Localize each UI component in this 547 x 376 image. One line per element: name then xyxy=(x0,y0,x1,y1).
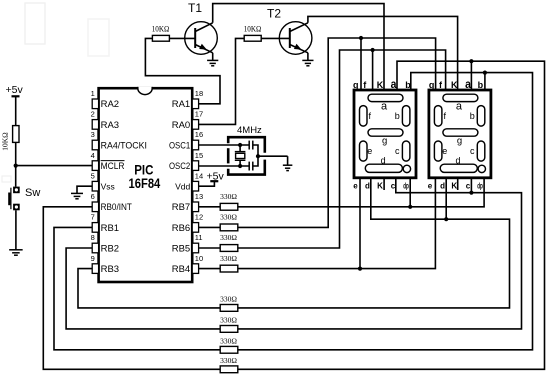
svg-text:10KΩ: 10KΩ xyxy=(152,25,170,34)
svg-text:b: b xyxy=(405,80,411,90)
display2 b stub xyxy=(484,73,486,90)
svg-text:7: 7 xyxy=(91,213,95,222)
DS1 bottom K stub (n.c.) xyxy=(383,178,385,190)
net f line to displays xyxy=(238,50,446,248)
svg-text:dp: dp xyxy=(403,181,409,190)
svg-text:+5v: +5v xyxy=(6,84,24,96)
svg-text:c: c xyxy=(470,146,475,156)
svg-text:K: K xyxy=(451,181,457,190)
crystal X1 xyxy=(235,151,246,153)
wire switch to ground xyxy=(15,210,17,250)
svg-text:10: 10 xyxy=(195,254,203,263)
pin 1 box xyxy=(92,99,98,109)
junction node MCLR xyxy=(14,164,18,168)
wire Vss to ground xyxy=(77,186,92,193)
junction d-display2 xyxy=(444,217,448,221)
junction b-display2 xyxy=(483,71,487,75)
net e line to displays xyxy=(238,178,436,269)
net dp (RB7): wire pin13 xyxy=(199,206,221,208)
wire RA1 to T1 base resistor xyxy=(145,38,220,103)
faint artifact rectangle 3 xyxy=(2,176,11,182)
+5v supply bar (left) xyxy=(12,95,20,97)
svg-text:11: 11 xyxy=(195,233,203,242)
wire RA0 to T2 base resistor xyxy=(199,38,245,124)
faint artifact rectangle 1 xyxy=(25,3,45,44)
wire junction to switch xyxy=(15,166,17,187)
net g line to displays xyxy=(238,38,436,227)
svg-text:330Ω: 330Ω xyxy=(220,213,237,222)
ground (T2) xyxy=(302,59,313,61)
DS1 segment a xyxy=(368,94,403,101)
pin 12 box xyxy=(192,223,198,233)
svg-text:330Ω: 330Ω xyxy=(220,316,237,325)
DS1 segment dp xyxy=(403,165,410,172)
pin 18 box xyxy=(192,99,198,109)
wire caps common to ground xyxy=(257,151,259,162)
transistor T1 xyxy=(185,22,218,55)
svg-text:16: 16 xyxy=(195,130,203,139)
DS1 segment g xyxy=(368,129,403,136)
pin 4 box xyxy=(92,161,98,171)
svg-text:g: g xyxy=(429,80,435,90)
net c (RB2) routing xyxy=(66,178,521,329)
svg-text:e: e xyxy=(353,181,358,190)
svg-text:d: d xyxy=(455,156,460,166)
display2 c stub xyxy=(470,178,472,193)
svg-text:T1: T1 xyxy=(188,1,202,15)
display1 f stub xyxy=(372,50,374,90)
svg-text:a: a xyxy=(465,77,471,91)
svg-text:a: a xyxy=(456,101,463,113)
svg-text:330Ω: 330Ω xyxy=(220,254,237,263)
resistor 330-ohm (RB6/g) xyxy=(220,224,238,231)
DS1 segment c xyxy=(402,141,410,161)
svg-text:e: e xyxy=(428,181,433,190)
svg-text:RA3: RA3 xyxy=(101,120,119,131)
display1 e stub xyxy=(359,178,361,269)
pin 16 box xyxy=(192,140,198,150)
svg-text:4: 4 xyxy=(91,151,95,160)
wire resistor to T2 base xyxy=(261,37,290,39)
pin 2 box xyxy=(92,120,98,130)
ground (crystal) xyxy=(287,156,289,165)
net e (RB4): wire pin10 xyxy=(199,268,221,270)
resistor 10K-ohm (T2 base) xyxy=(244,35,261,41)
svg-text:a: a xyxy=(381,101,388,113)
wire OSC1 to crystal xyxy=(199,144,250,146)
wire junction to MCLR pin xyxy=(16,165,93,167)
svg-text:4MHz: 4MHz xyxy=(237,125,262,136)
resistor 330-ohm (RB3/d) xyxy=(220,305,238,312)
crystal module box xyxy=(228,137,265,153)
junction crystal-OSC2 xyxy=(238,164,242,168)
svg-text:330Ω: 330Ω xyxy=(220,192,237,201)
svg-text:c: c xyxy=(391,181,396,190)
junction c-display2 xyxy=(469,191,473,195)
net K2: T2 collector to display2 K xyxy=(308,16,458,90)
svg-text:c: c xyxy=(466,181,471,190)
capacitor C2 (OSC2) xyxy=(248,162,250,171)
svg-text:RB3: RB3 xyxy=(101,264,119,275)
svg-text:8: 8 xyxy=(91,233,95,242)
ground (Vss) xyxy=(71,192,83,194)
svg-text:K: K xyxy=(377,80,384,90)
DS2 segment d xyxy=(440,164,477,172)
svg-text:RA1: RA1 xyxy=(172,99,190,110)
resistor 330-ohm (RB7/dp) xyxy=(220,203,238,210)
capacitor C1 (OSC1) xyxy=(248,141,250,150)
svg-text:b: b xyxy=(470,111,475,121)
wire Vdd to +5v xyxy=(199,181,215,186)
svg-text:dp: dp xyxy=(477,181,483,190)
svg-text:e: e xyxy=(442,146,447,156)
transistor T2 xyxy=(279,22,312,55)
pin 6 box xyxy=(92,202,98,212)
svg-text:RB4: RB4 xyxy=(172,264,190,275)
DS2 segment b xyxy=(477,106,485,127)
svg-text:330Ω: 330Ω xyxy=(220,295,237,304)
svg-text:RA2: RA2 xyxy=(101,99,119,110)
pin 7 box xyxy=(92,223,98,233)
svg-text:10KΩ: 10KΩ xyxy=(1,132,10,151)
svg-text:a: a xyxy=(391,77,397,91)
svg-text:RB2: RB2 xyxy=(101,243,119,254)
display2 d stub xyxy=(445,178,447,219)
DS2 segment dp xyxy=(478,165,485,172)
resistor 330-ohm (RB5/f) xyxy=(220,245,238,252)
resistor 330-ohm (RB2/c) xyxy=(220,326,238,333)
pin 10 box xyxy=(192,264,198,274)
junction f-display1 xyxy=(371,48,375,52)
pin 3 box xyxy=(92,140,98,150)
PIC16F84 chip body U1 xyxy=(99,88,193,282)
svg-text:RA0: RA0 xyxy=(172,120,190,131)
wire +5v to resistor xyxy=(15,96,17,125)
display1 dp stub xyxy=(409,178,411,207)
wire OSC2 to crystal xyxy=(199,165,250,167)
svg-text:6: 6 xyxy=(91,192,95,201)
svg-text:OSC1: OSC1 xyxy=(169,140,190,151)
junction caps common xyxy=(256,154,260,158)
pin 13 box xyxy=(192,202,198,212)
svg-text:Sw: Sw xyxy=(25,187,40,199)
svg-text:K: K xyxy=(377,181,383,190)
resistor 10K-ohm (T1 base) xyxy=(152,35,169,41)
svg-text:13: 13 xyxy=(195,192,203,201)
svg-text:15: 15 xyxy=(195,151,203,160)
net dp line to displays xyxy=(238,178,484,207)
svg-text:1: 1 xyxy=(91,89,95,98)
7-segment display DS2 body xyxy=(429,90,491,178)
DS2 segment f xyxy=(434,106,442,127)
svg-text:RB0/INT: RB0/INT xyxy=(101,202,132,213)
svg-text:d: d xyxy=(440,181,445,190)
pin 8 box xyxy=(92,243,98,253)
+5v supply bar (Vdd) xyxy=(210,180,218,182)
DS2 segment e xyxy=(434,141,442,161)
switch Sw terminal top xyxy=(13,187,20,194)
net g (RB6): wire pin12 xyxy=(199,226,221,228)
MCLR overline xyxy=(101,160,125,162)
net a (RB0) routing xyxy=(43,61,544,369)
switch Sw actuator bar xyxy=(10,188,12,210)
DS1 segment b xyxy=(402,106,410,127)
pin 14 box xyxy=(192,181,198,191)
svg-text:T2: T2 xyxy=(267,7,281,21)
svg-text:Vss: Vss xyxy=(101,182,115,192)
svg-text:b: b xyxy=(395,111,400,121)
svg-text:d: d xyxy=(365,181,370,190)
pin 15 box xyxy=(192,161,198,171)
display2 a stub xyxy=(470,61,472,90)
svg-text:K: K xyxy=(451,80,458,90)
svg-text:RB5: RB5 xyxy=(172,243,190,254)
chip notch xyxy=(138,87,152,95)
svg-text:RB7: RB7 xyxy=(172,202,190,213)
wire T2 emitter to ground xyxy=(307,53,309,61)
svg-text:3: 3 xyxy=(91,130,95,139)
svg-text:g: g xyxy=(457,135,462,146)
svg-text:g: g xyxy=(382,135,387,146)
svg-text:330Ω: 330Ω xyxy=(220,337,237,346)
svg-text:9: 9 xyxy=(91,254,95,263)
resistor 330-ohm (RB0/a) xyxy=(220,366,238,373)
DS2 segment a xyxy=(443,94,478,101)
svg-text:Vdd: Vdd xyxy=(175,182,190,192)
DS1 segment d xyxy=(365,164,402,172)
junction crystal-OSC1 xyxy=(238,143,242,147)
junction dp-display1 xyxy=(408,205,412,209)
svg-text:14: 14 xyxy=(195,171,203,180)
svg-text:RA4/TOCKI: RA4/TOCKI xyxy=(101,140,147,151)
junction g-display1 xyxy=(359,36,363,40)
svg-text:2: 2 xyxy=(91,110,95,119)
wire resistor to junction xyxy=(15,142,17,165)
pin 9 box xyxy=(92,264,98,274)
wire T1 emitter to ground xyxy=(212,53,214,61)
svg-text:10KΩ: 10KΩ xyxy=(244,25,262,34)
ground (switch) xyxy=(9,249,23,251)
ground (T1) xyxy=(207,59,218,61)
svg-text:17: 17 xyxy=(195,110,203,119)
svg-text:d: d xyxy=(381,156,386,166)
pin 5 box xyxy=(92,181,98,191)
net f (RB5): wire pin11 xyxy=(199,247,221,249)
svg-text:RB1: RB1 xyxy=(101,223,119,234)
DS1 segment e xyxy=(360,141,368,161)
switch Sw terminal bottom xyxy=(13,204,20,211)
net K1: T1 collector to display1 K xyxy=(213,4,384,90)
svg-text:5: 5 xyxy=(91,171,95,180)
svg-text:e: e xyxy=(367,146,372,156)
display1 g stub xyxy=(360,38,362,90)
wire resistor to T1 base xyxy=(169,37,195,39)
DS2 segment c xyxy=(477,141,485,161)
svg-text:16F84: 16F84 xyxy=(129,176,161,191)
svg-text:c: c xyxy=(395,146,400,156)
svg-text:+5v: +5v xyxy=(207,171,225,183)
resistor 10K-ohm vertical (R1) xyxy=(13,126,19,143)
svg-text:g: g xyxy=(353,80,359,90)
DS2 bottom K stub (n.c.) xyxy=(457,178,459,190)
net d (RB3) routing xyxy=(78,178,510,308)
svg-text:b: b xyxy=(478,80,484,90)
DS1 segment f xyxy=(360,106,368,127)
DS2 segment g xyxy=(443,129,478,136)
resistor 330-ohm (RB4/e) xyxy=(220,265,238,272)
junction e-display1 xyxy=(358,267,362,271)
svg-text:330Ω: 330Ω xyxy=(220,356,237,365)
svg-text:18: 18 xyxy=(195,89,203,98)
svg-text:12: 12 xyxy=(195,213,203,222)
7-segment display DS1 body xyxy=(354,90,416,178)
resistor 330-ohm (RB1/b) xyxy=(220,346,238,353)
svg-text:330Ω: 330Ω xyxy=(220,233,237,242)
pin 11 box xyxy=(192,243,198,253)
svg-text:OSC2: OSC2 xyxy=(169,161,190,172)
faint artifact rectangle 2 xyxy=(88,19,109,56)
net b (RB1) routing xyxy=(54,73,533,350)
svg-text:MCLR: MCLR xyxy=(101,161,125,172)
svg-text:RB6: RB6 xyxy=(172,223,190,234)
junction a-display2 xyxy=(469,59,473,63)
pin 17 box xyxy=(192,120,198,130)
